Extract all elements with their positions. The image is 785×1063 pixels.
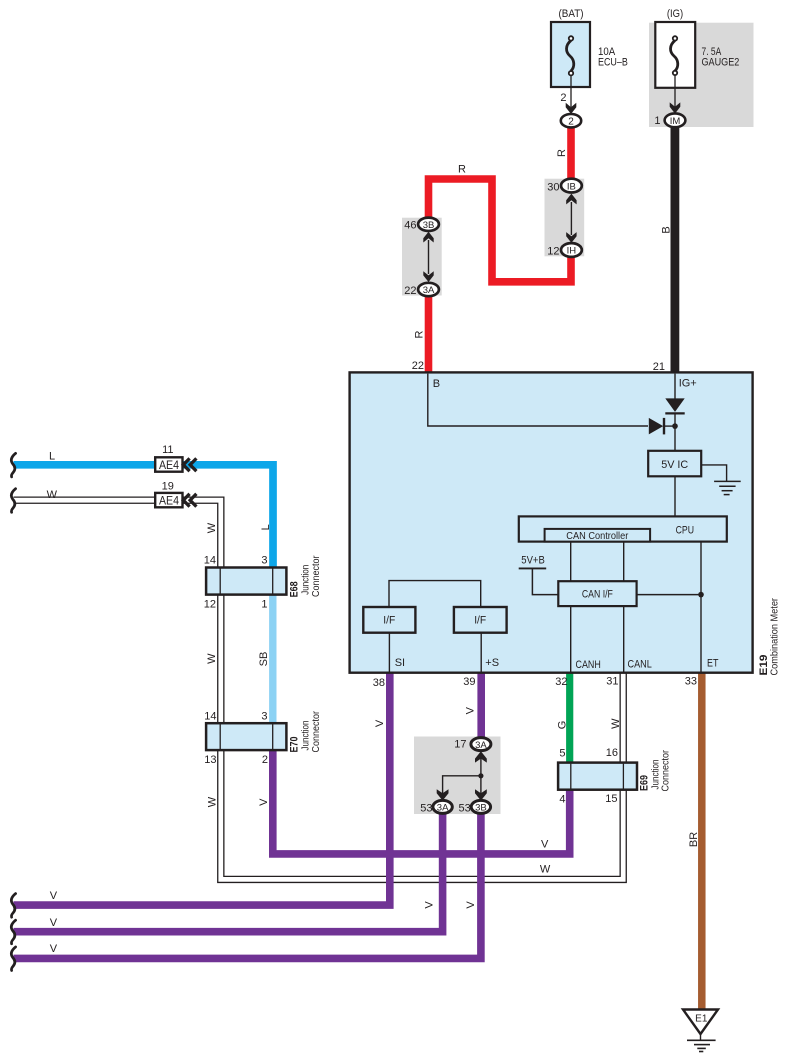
- wire V purple from oval 53-3A down to bottom run B: [14, 809, 443, 932]
- wire L blue horizontal+vertical to E68 pin3: [14, 465, 274, 569]
- break squiggle V wire A: [11, 894, 15, 918]
- svg-text:IG+: IG+: [679, 378, 697, 390]
- svg-text:5: 5: [559, 748, 565, 760]
- svg-text:G: G: [557, 721, 569, 730]
- svg-text:12: 12: [547, 246, 559, 258]
- arrow below fuse ECU-B: [566, 103, 577, 114]
- I-F box left: [363, 607, 415, 633]
- svg-text:R: R: [556, 149, 568, 157]
- svg-text:5V IC: 5V IC: [661, 459, 688, 471]
- svg-text:2: 2: [560, 92, 566, 104]
- svg-text:3B: 3B: [423, 220, 435, 231]
- fuse ECU-B element curve: [567, 36, 574, 107]
- svg-text:AE4: AE4: [159, 496, 180, 508]
- svg-text:SI: SI: [395, 657, 405, 669]
- oval terminal 53-3B: [471, 800, 490, 813]
- CAN Controller box: [545, 529, 651, 542]
- svg-text:33: 33: [685, 676, 697, 688]
- double chevron on W wire: [183, 494, 196, 507]
- junction node dot bottom connector: [478, 773, 483, 778]
- svg-text:38: 38: [373, 677, 385, 689]
- svg-text:GAUGE2: GAUGE2: [702, 56, 740, 68]
- wire R red 3A down to meter pin22 B: [425, 292, 433, 374]
- svg-text:31: 31: [606, 676, 618, 688]
- oval terminal IB: [561, 179, 582, 193]
- svg-text:CANL: CANL: [628, 659, 652, 671]
- svg-text:IH: IH: [567, 246, 577, 257]
- svg-text:3A: 3A: [423, 285, 435, 296]
- arrow below fuse GAUGE2: [670, 102, 681, 113]
- fuse GAUGE2 box: [655, 22, 695, 88]
- svg-text:I/F: I/F: [383, 615, 395, 627]
- svg-text:CAN Controller: CAN Controller: [566, 530, 628, 542]
- ground symbol E1: [683, 1010, 718, 1052]
- oval terminal IH: [561, 243, 582, 257]
- svg-text:22: 22: [412, 360, 424, 372]
- svg-text:I/F: I/F: [474, 615, 486, 627]
- wire V purple meter pin38 SI down to bottom run A: [14, 672, 390, 905]
- CPU box: [519, 516, 727, 541]
- break squiggle V wire C: [11, 947, 15, 971]
- svg-text:B: B: [660, 226, 672, 233]
- svg-text:3: 3: [261, 555, 267, 567]
- svg-text:53: 53: [420, 803, 432, 815]
- svg-text:ET: ET: [707, 658, 719, 670]
- svg-text:12: 12: [204, 599, 216, 611]
- wire W white outline CANL run: AE4 to E68 to E70 to bottom to E69 to meter pin31: [14, 500, 624, 879]
- svg-text:CAN I/F: CAN I/F: [582, 589, 613, 601]
- oval terminal 2: [561, 114, 581, 127]
- svg-text:1: 1: [261, 599, 267, 611]
- svg-text:IM: IM: [670, 116, 681, 127]
- svg-text:V: V: [465, 901, 477, 909]
- double arrow IB-IH: [566, 194, 576, 243]
- connector shield IG fuse: [649, 23, 754, 127]
- svg-text:V: V: [50, 890, 58, 902]
- svg-text:4: 4: [559, 794, 565, 806]
- node B wire inside meter: [428, 374, 648, 426]
- wire CANH inside meter: [570, 606, 572, 672]
- svg-text:32: 32: [555, 676, 567, 688]
- svg-text:V: V: [50, 943, 58, 955]
- oval terminal 3B top: [418, 218, 439, 231]
- internal ground of 5V IC: [701, 465, 741, 495]
- break squiggle V wire B: [11, 920, 15, 944]
- wire V purple meter pin39 +S down to connector oval 17-3A: [477, 672, 485, 740]
- svg-text:1: 1: [654, 115, 660, 127]
- svg-text:53: 53: [459, 803, 471, 815]
- svg-text:BR: BR: [688, 832, 700, 847]
- wire R red IH down left up left down to 3B: [429, 179, 572, 282]
- svg-text:11: 11: [162, 444, 173, 456]
- connector AE4 box on W wire: [155, 493, 182, 507]
- 5V+B supply bar and wire: [519, 568, 559, 594]
- oval terminal 17-3A bottom connector: [471, 738, 491, 751]
- svg-text:V: V: [541, 839, 549, 851]
- svg-text:W: W: [47, 489, 58, 501]
- diode D2 horizontal: [649, 418, 675, 435]
- svg-text:46: 46: [404, 220, 416, 232]
- svg-text:13: 13: [204, 754, 216, 766]
- wire inside bottom connector: [443, 759, 481, 795]
- break squiggle L wire: [11, 453, 15, 477]
- arrow up to 17-3A: [475, 751, 487, 762]
- connector shield IB-IH: [545, 179, 585, 257]
- svg-text:30: 30: [547, 182, 559, 194]
- junction connector E68 box: [206, 568, 286, 595]
- svg-text:15: 15: [605, 793, 617, 805]
- junction node dot ET: [698, 592, 704, 598]
- junction connector E70 box: [206, 723, 286, 750]
- svg-text:V: V: [374, 719, 386, 727]
- svg-text:IB: IB: [567, 181, 576, 192]
- wire V purple E70 pin2 down right up to E69 pin4: [273, 748, 570, 854]
- wire B black fuse IM to meter pin21 IG+: [671, 126, 680, 373]
- svg-text:E1: E1: [695, 1013, 708, 1024]
- svg-text:3A: 3A: [437, 803, 449, 814]
- svg-text:3: 3: [261, 711, 267, 723]
- svg-text:2: 2: [568, 116, 574, 127]
- svg-text:3A: 3A: [475, 740, 487, 751]
- junction connector E69 box: [558, 763, 637, 790]
- arrow down to 53-3B: [475, 789, 487, 800]
- svg-text:+S: +S: [485, 657, 499, 669]
- svg-text:16: 16: [606, 747, 618, 759]
- wire SI inside meter: [388, 633, 390, 672]
- svg-text:21: 21: [653, 361, 665, 373]
- svg-text:Connector: Connector: [660, 750, 672, 792]
- wire CAN controller to CAN I/F left: [570, 542, 572, 582]
- double arrow 3B-3A: [423, 232, 433, 282]
- junction node dot diodes: [672, 423, 678, 429]
- wire +S inside meter: [480, 633, 482, 672]
- svg-text:W: W: [206, 796, 218, 807]
- fuse ECU-B box: [551, 22, 590, 87]
- svg-text:3B: 3B: [475, 803, 487, 814]
- oval terminal 53-3A: [433, 800, 452, 813]
- fuse GAUGE2 element curve: [671, 36, 678, 107]
- svg-text:2: 2: [262, 754, 268, 766]
- combination meter box E19: [350, 372, 753, 672]
- svg-text:V: V: [50, 917, 58, 929]
- svg-text:CPU: CPU: [676, 524, 694, 536]
- arrow down to 53-3A: [437, 789, 449, 800]
- svg-text:17: 17: [454, 739, 466, 751]
- svg-text:5V+B: 5V+B: [521, 554, 545, 566]
- svg-text:V: V: [258, 798, 270, 806]
- wire 5V IC to CPU: [674, 476, 676, 516]
- I-F box right: [454, 607, 507, 633]
- svg-text:19: 19: [162, 481, 174, 493]
- svg-text:V: V: [424, 901, 436, 909]
- oval terminal 3A top: [418, 283, 439, 296]
- oval terminal IM: [665, 113, 686, 127]
- bracket wire joining I-F boxes: [389, 581, 481, 607]
- svg-text:W: W: [206, 653, 218, 664]
- regulator 5V IC box U1: [648, 451, 701, 477]
- wire SB light blue E68 pin1 to E70 pin3: [269, 593, 276, 725]
- connector shield 3A-3B bottom: [414, 737, 501, 815]
- connector AE4 box on L wire: [155, 457, 182, 471]
- svg-text:CANH: CANH: [576, 659, 601, 671]
- wire G green meter pin32 CANH to E69 pin5: [566, 671, 573, 764]
- svg-text:Connector: Connector: [310, 711, 322, 753]
- svg-text:L: L: [260, 524, 272, 530]
- svg-text:(BAT): (BAT): [559, 8, 584, 20]
- wire R red fuse oval2 to IB: [567, 124, 575, 183]
- wire BR brown meter pin33 ET to ground E1: [698, 671, 706, 1010]
- ET line inside meter: [700, 542, 702, 672]
- wire CAN I/F to ET line: [637, 594, 701, 596]
- break squiggle W wire: [11, 489, 15, 513]
- svg-text:Connector: Connector: [310, 555, 322, 597]
- svg-text:22: 22: [404, 285, 416, 297]
- wire CANL inside meter: [623, 606, 625, 672]
- connector shield 3B-3A: [402, 218, 442, 296]
- svg-text:R: R: [458, 164, 466, 176]
- svg-text:(IG): (IG): [667, 8, 683, 20]
- svg-text:V: V: [465, 706, 477, 714]
- CAN I/F box: [558, 581, 636, 606]
- svg-text:R: R: [413, 330, 425, 338]
- svg-text:W: W: [206, 522, 218, 533]
- wire CAN controller to CAN I/F right: [623, 542, 625, 582]
- svg-text:14: 14: [204, 555, 216, 567]
- wire V purple from oval 53-3B down to bottom run C: [14, 809, 481, 958]
- svg-text:39: 39: [463, 676, 475, 688]
- svg-text:L: L: [49, 451, 55, 463]
- svg-text:SB: SB: [258, 652, 270, 667]
- svg-text:ECU–B: ECU–B: [598, 56, 628, 68]
- node IG+ wire inside meter: [674, 374, 676, 399]
- svg-text:B: B: [433, 378, 440, 390]
- svg-text:Combination Meter: Combination Meter: [768, 598, 780, 676]
- svg-text:AE4: AE4: [159, 460, 180, 472]
- svg-text:14: 14: [204, 711, 216, 723]
- diode D1 vertical: [665, 398, 684, 450]
- svg-text:W: W: [540, 864, 551, 876]
- double chevron on L wire: [183, 458, 196, 471]
- svg-text:W: W: [610, 718, 622, 729]
